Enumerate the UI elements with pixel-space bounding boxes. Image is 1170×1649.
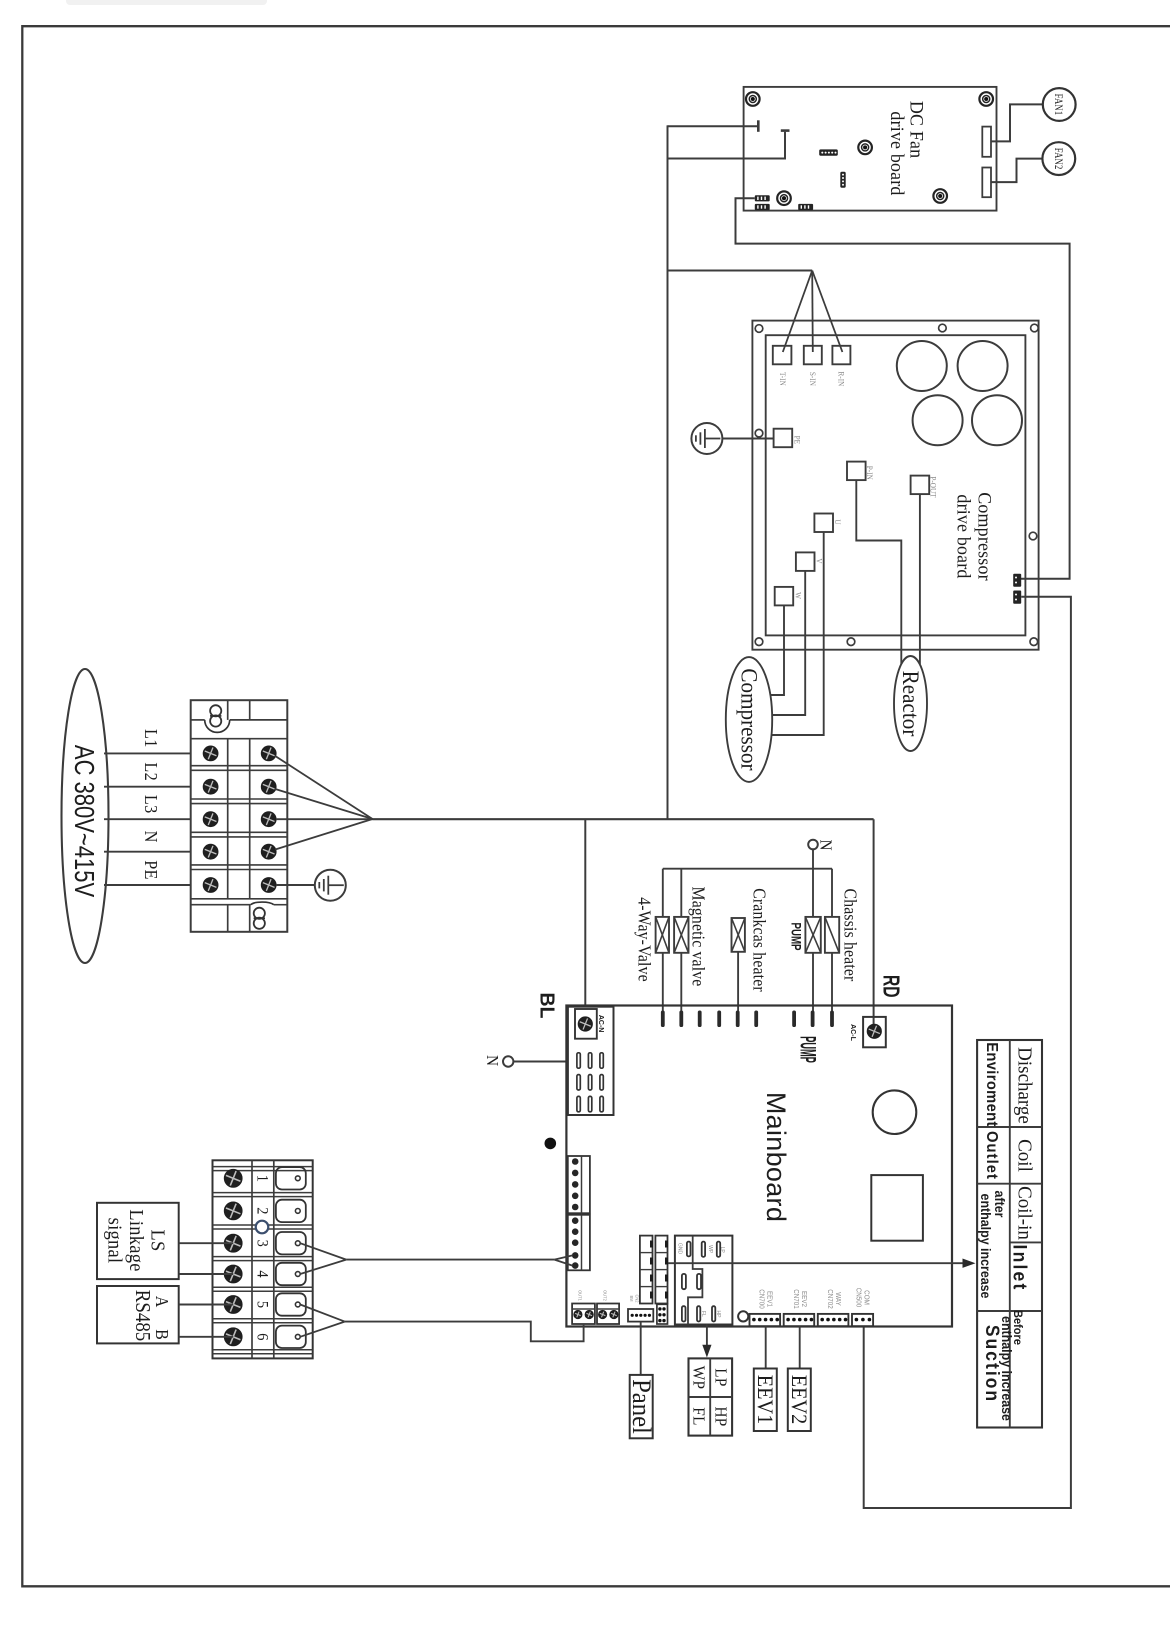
svg-text:LS: LS <box>146 1229 168 1251</box>
N supply circle small <box>808 840 818 850</box>
left connector block 2 <box>568 1215 590 1271</box>
svg-text:PUMP: PUMP <box>788 922 803 950</box>
wire V to compressor <box>772 571 806 715</box>
wire AC L3 <box>104 818 191 820</box>
svg-text:BL: BL <box>535 993 558 1019</box>
svg-text:4-Way-Valve: 4-Way-Valve <box>634 897 654 982</box>
screw hole <box>777 191 791 205</box>
svg-text:signal: signal <box>103 1218 125 1264</box>
Compressor drive board inner <box>766 335 1026 635</box>
svg-text:W: W <box>793 592 803 599</box>
main AC bus wire <box>373 818 874 820</box>
capacitor C4 <box>972 395 1022 445</box>
svg-text:Coil-in: Coil-in <box>1013 1186 1035 1240</box>
mount hole <box>1029 532 1037 540</box>
Mainboard outline <box>566 1006 952 1327</box>
svg-text:Panel: Panel <box>627 1379 656 1434</box>
mount screw top <box>210 705 221 716</box>
fan FAN1 <box>1043 88 1076 121</box>
svg-text:CN701: CN701 <box>792 1289 799 1309</box>
wire AC N <box>104 851 191 853</box>
coil 4-way valve <box>656 917 669 953</box>
reactor ellipse <box>894 656 927 751</box>
svg-text:FL: FL <box>689 1407 707 1425</box>
svg-text:2: 2 <box>253 1207 271 1214</box>
terminal S-IN <box>804 346 822 365</box>
wire to EEV1 <box>765 1326 767 1368</box>
hole small <box>738 1311 748 1321</box>
wire LS to screw 4 <box>179 1273 234 1275</box>
spade terminal 2 <box>276 1200 306 1222</box>
mount hole <box>755 325 763 333</box>
terminal V <box>796 552 815 571</box>
screw terminal 6 <box>224 1328 242 1346</box>
wire to EEV2 <box>799 1326 801 1368</box>
svg-text:drive board: drive board <box>952 494 974 579</box>
svg-text:WP: WP <box>707 1245 713 1254</box>
AC supply ellipse <box>62 669 109 963</box>
RS485 box <box>97 1286 179 1343</box>
svg-text:Discharge: Discharge <box>1013 1047 1035 1124</box>
comb connector CN-A <box>1013 574 1021 587</box>
left connector block 1 <box>568 1156 590 1213</box>
signal terminal block TB2 <box>213 1160 313 1358</box>
ground symbol compressor <box>691 423 722 454</box>
svg-text:CN702: CN702 <box>826 1289 833 1309</box>
svg-text:P-OUT: P-OUT <box>928 476 938 497</box>
wire to FAN2 <box>991 159 1043 183</box>
svg-text:N: N <box>141 831 161 843</box>
compressor ellipse <box>726 657 772 782</box>
capacitor C3 <box>913 395 963 445</box>
svg-text:RD: RD <box>878 975 904 998</box>
wire W to compressor <box>770 605 784 695</box>
pressure switch block <box>675 1236 733 1325</box>
coil magnetic valve <box>674 917 688 953</box>
svg-text:1: 1 <box>253 1175 271 1182</box>
wire N circle down to pump <box>812 849 814 917</box>
svg-text:AC-L: AC-L <box>849 1024 856 1041</box>
svg-text:WAY: WAY <box>834 1292 841 1306</box>
svg-text:EEV2: EEV2 <box>787 1375 812 1424</box>
wire comb CN-B long loop to COM <box>864 597 1071 1508</box>
hole circle <box>873 1090 917 1134</box>
ic component 5pin <box>819 149 838 155</box>
svg-text:EEV2: EEV2 <box>800 1291 807 1307</box>
svg-text:CN500: CN500 <box>854 1288 861 1308</box>
svg-text:Outlet: Outlet <box>983 1131 1001 1180</box>
wire to Panel <box>640 1322 642 1375</box>
screw hole <box>979 92 993 106</box>
svg-text:4: 4 <box>253 1270 271 1278</box>
svg-text:U: U <box>833 519 843 524</box>
wire ground to PE <box>722 438 773 440</box>
svg-text:GND: GND <box>676 1243 682 1254</box>
svg-text:PE: PE <box>792 436 802 445</box>
svg-text:L3: L3 <box>141 795 161 814</box>
sensor arrow wire <box>668 1262 964 1264</box>
connector comb CN3 <box>798 204 813 210</box>
wire to J2 <box>668 132 786 159</box>
wire spade 3-4 fan <box>300 1243 346 1259</box>
screw N left <box>203 844 218 859</box>
screw terminal 4 <box>224 1265 242 1283</box>
DC Fan drive board U-FAN <box>744 87 997 211</box>
wire bus to chassis heater <box>831 869 833 917</box>
svg-text:enthalpy increase: enthalpy increase <box>999 1316 1015 1421</box>
svg-text:PUMP: PUMP <box>795 1036 820 1063</box>
svg-text:S-IN: S-IN <box>808 372 818 386</box>
svg-text:OUT2: OUT2 <box>602 1290 607 1301</box>
AC-N slots <box>577 1053 580 1068</box>
Compressor drive board U-COMP outer <box>752 321 1038 650</box>
svg-text:Inlet: Inlet <box>1009 1245 1031 1292</box>
wire N to AC-N block <box>514 1061 578 1063</box>
svg-text:HP: HP <box>715 1311 721 1318</box>
svg-text:AC 380V~415V: AC 380V~415V <box>68 745 99 898</box>
wire AC L2 <box>104 786 191 788</box>
terminal P-IN <box>847 462 866 481</box>
terminal stub J2 <box>781 129 790 132</box>
wire 4-way valve to pin <box>662 953 664 1012</box>
svg-text:Compressor: Compressor <box>973 492 995 581</box>
svg-text:EEV1: EEV1 <box>766 1291 773 1307</box>
wire main feeder vertical <box>667 125 669 819</box>
spade terminal 1 <box>276 1167 306 1189</box>
screw hole <box>858 141 872 155</box>
svg-text:Crankcas heater: Crankcas heater <box>749 888 769 992</box>
pressure table WP LP FL HP <box>689 1358 733 1435</box>
LS linkage signal box <box>97 1203 179 1279</box>
svg-text:EEV1: EEV1 <box>753 1375 778 1424</box>
AC-N terminal block <box>568 1007 614 1115</box>
tall connector B <box>655 1236 667 1304</box>
svg-text:N: N <box>483 1055 501 1066</box>
sensor table <box>977 1040 1042 1428</box>
chassis heater element <box>825 917 839 953</box>
svg-text:Coil: Coil <box>1013 1139 1035 1172</box>
capacitor C1 <box>897 341 947 391</box>
EEV2 box <box>788 1369 811 1432</box>
pressure slots top GND WP LP <box>687 1242 691 1257</box>
spade terminal 3 <box>276 1232 306 1254</box>
screw L2 left <box>203 779 218 794</box>
capacitor C2 <box>958 341 1008 391</box>
svg-text:P-IN: P-IN <box>865 466 875 480</box>
coil crankcase heater <box>732 918 745 952</box>
wire AC PE <box>104 884 191 886</box>
mount hole <box>847 638 855 646</box>
EEV1 box <box>754 1369 777 1432</box>
connector EEV2 CN701 <box>784 1314 815 1326</box>
svg-text:RS485: RS485 <box>131 1290 154 1341</box>
AC terminal block TB1 <box>191 700 288 932</box>
AC-L screw <box>867 1024 881 1038</box>
load bus wire <box>663 868 832 870</box>
screw terminal 1 <box>224 1170 242 1188</box>
svg-text:BM: BM <box>629 1295 634 1301</box>
svg-text:Linkage: Linkage <box>125 1209 147 1271</box>
TB1 bottom strip line with screw bump <box>191 904 251 906</box>
AC-N screw <box>578 1017 592 1031</box>
mount dot <box>545 1138 557 1150</box>
mount hole <box>939 324 947 332</box>
screw L3 left <box>203 812 218 827</box>
svg-text:L1: L1 <box>141 729 161 748</box>
wire P-OUT to reactor <box>919 494 921 664</box>
AC-L terminal box <box>863 1017 886 1047</box>
screw hole <box>746 92 760 106</box>
blue indicator circle <box>256 1221 269 1234</box>
connector CN2 panel <box>628 1309 653 1322</box>
pressure slots middle <box>682 1274 686 1289</box>
top edge pins <box>661 1011 665 1028</box>
TB1 row separator lines <box>191 765 288 767</box>
wire arrow to pressure table <box>706 1325 708 1347</box>
wire spade 5-6 fan <box>300 1305 345 1322</box>
ic component 4pin vertical <box>840 172 845 188</box>
spade terminal 4 <box>276 1263 306 1285</box>
3-phase input fan wires <box>668 270 813 272</box>
fan connector FAN2 socket <box>982 168 991 198</box>
svg-text:R-IN: R-IN <box>836 371 846 386</box>
terminal R-IN <box>832 346 850 365</box>
mount hole <box>1030 638 1038 646</box>
svg-text:Mainboard: Mainboard <box>761 1092 791 1222</box>
screw L1 left <box>203 746 218 761</box>
spade terminal 6 <box>276 1326 306 1348</box>
svg-text:LP: LP <box>711 1368 729 1386</box>
wire to FAN1 <box>991 104 1043 141</box>
terminal U <box>814 514 833 533</box>
svg-text:COM: COM <box>862 1290 869 1305</box>
wire P-IN to reactor <box>856 480 901 664</box>
svg-text:HP: HP <box>711 1406 729 1426</box>
svg-text:3: 3 <box>253 1240 271 1248</box>
svg-text:AC-N: AC-N <box>597 1015 604 1033</box>
svg-text:CN2: CN2 <box>634 1294 639 1303</box>
node N circle <box>503 1056 513 1066</box>
tall connector A <box>640 1236 653 1304</box>
svg-text:Magnetic valve: Magnetic valve <box>688 887 708 987</box>
terminal P-OUT <box>911 476 930 495</box>
screw block OUT2 <box>597 1304 619 1325</box>
terminal PE <box>774 429 793 448</box>
TB1 top strip line with screw notch <box>191 719 205 721</box>
fan FAN2 <box>1042 142 1075 175</box>
svg-text:N: N <box>816 839 834 850</box>
terminal T-IN <box>773 346 792 365</box>
wire linkage fan-in <box>346 1259 554 1261</box>
svg-text:PE: PE <box>141 860 161 880</box>
screw N right <box>261 844 276 859</box>
ground symbol AC <box>315 870 346 901</box>
svg-text:LP: LP <box>719 1247 725 1254</box>
connector comb CN1 <box>755 195 770 201</box>
connector WAY CN702 <box>818 1314 849 1326</box>
svg-text:6: 6 <box>253 1333 271 1341</box>
svg-text:CN700: CN700 <box>758 1289 765 1309</box>
svg-text:FAN2: FAN2 <box>1051 148 1064 170</box>
6 dot block <box>657 1304 668 1324</box>
coil pump <box>805 917 820 953</box>
screw PE left <box>203 878 218 893</box>
fan wires to bus <box>275 756 372 819</box>
wire AC L1 <box>104 752 191 754</box>
svg-text:drive board: drive board <box>886 111 908 196</box>
screw terminal 5 <box>224 1296 242 1314</box>
screw hole <box>933 189 947 203</box>
svg-text:T-IN: T-IN <box>778 372 788 386</box>
wire to J1 <box>668 125 758 127</box>
terminal W <box>775 587 794 606</box>
wire pump to pin <box>812 953 814 1012</box>
svg-text:Chassis heater: Chassis heater <box>840 889 860 982</box>
wire RS485 B to screw 6 <box>179 1336 234 1338</box>
wire RS485 A to screw 5 <box>179 1304 234 1306</box>
screw L3 right <box>261 812 276 827</box>
screw block OUT1 <box>572 1304 595 1325</box>
wire N drop to AC-N <box>584 819 586 1024</box>
page artifact blob top <box>66 0 267 5</box>
TB1 column dividers <box>227 701 229 720</box>
screw L1 right <box>261 746 276 761</box>
wire LS to screw 3 <box>179 1242 234 1244</box>
svg-text:Enviroment: Enviroment <box>983 1042 1001 1127</box>
pressure slots bottom FL HP <box>682 1306 686 1321</box>
wire RS485 step <box>345 1322 584 1342</box>
wire U to compressor <box>770 532 824 735</box>
mount hole <box>1031 324 1039 332</box>
wire bus to 4-way valve <box>662 869 664 917</box>
connector COM CN500 <box>852 1314 873 1326</box>
wire magnetic valve to pin <box>680 953 682 1012</box>
screw terminal 3 <box>224 1234 242 1252</box>
svg-text:WP: WP <box>689 1366 707 1389</box>
screw terminal 2 <box>224 1202 242 1220</box>
screw L2 right <box>261 779 276 794</box>
svg-text:enthalpy increase: enthalpy increase <box>978 1194 994 1299</box>
wire PE to ground <box>276 884 315 886</box>
wire bus to magnetic valve <box>680 869 682 917</box>
wire L drop to AC-L <box>873 819 875 1031</box>
connector EEV1 CN700 <box>750 1314 781 1326</box>
Panel box <box>630 1375 653 1438</box>
comb connector CN-B <box>1013 591 1021 604</box>
mount hole <box>755 429 763 437</box>
mount hole <box>755 638 763 646</box>
terminal stub J1 <box>757 120 760 132</box>
mount screw bottom <box>254 908 265 919</box>
wire chassis heater to pin <box>831 953 833 1012</box>
svg-text:Reactor: Reactor <box>898 671 924 737</box>
connector comb CN2 <box>755 204 770 210</box>
spade terminal 5 <box>276 1293 306 1315</box>
wire crankcase heater to pin <box>737 952 739 1012</box>
svg-text:L2: L2 <box>141 762 161 781</box>
svg-text:FAN1: FAN1 <box>1052 94 1065 116</box>
wire dc fan comb to bus <box>736 198 1070 579</box>
svg-text:FL: FL <box>700 1311 706 1317</box>
svg-text:Compressor: Compressor <box>736 668 762 771</box>
svg-text:OUT1: OUT1 <box>577 1290 582 1301</box>
svg-text:5: 5 <box>253 1301 271 1309</box>
relay square <box>871 1175 923 1241</box>
fan connector FAN1 socket <box>982 127 991 157</box>
screw PE right <box>261 878 276 893</box>
